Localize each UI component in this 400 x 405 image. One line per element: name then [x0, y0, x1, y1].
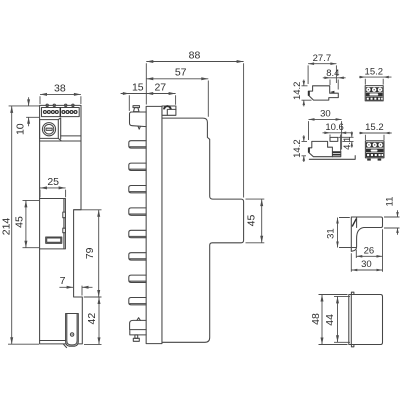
svg-text:88: 88	[189, 49, 201, 61]
dim 30	[309, 109, 342, 150]
window notches	[63, 212, 66, 233]
svg-text:27: 27	[154, 81, 166, 93]
connector side view 1	[308, 86, 339, 100]
top cap	[162, 106, 176, 115]
svg-text:14.2: 14.2	[292, 82, 303, 101]
gland box	[40, 118, 62, 141]
bottom terminal screw	[133, 335, 139, 341]
dim 15	[121, 81, 176, 111]
svg-text:57: 57	[175, 67, 187, 79]
dim 10.6	[323, 122, 353, 151]
front body outline	[40, 105, 83, 344]
dim 14.2 row1	[292, 80, 311, 107]
dim 45 side	[246, 199, 265, 243]
svg-text:25: 25	[47, 176, 59, 188]
dim 45 front	[14, 200, 39, 247]
dim 88	[146, 49, 243, 197]
svg-text:31: 31	[325, 228, 336, 239]
dim 4.1	[339, 132, 354, 150]
svg-text:8.4: 8.4	[326, 68, 339, 79]
top test tabs	[46, 104, 74, 106]
dim 30 bracket	[351, 253, 382, 272]
svg-text:30: 30	[361, 259, 372, 270]
dim 79	[74, 210, 102, 297]
svg-text:14.2: 14.2	[292, 139, 303, 158]
svg-text:15: 15	[132, 81, 144, 93]
dim 11	[384, 197, 400, 235]
top section lines	[40, 136, 81, 141]
svg-text:45: 45	[246, 215, 258, 227]
svg-text:26: 26	[364, 246, 375, 257]
side body outline	[162, 118, 244, 342]
svg-text:30: 30	[320, 109, 331, 120]
dim 15.2 row1	[359, 66, 392, 84]
svg-text:48: 48	[310, 313, 322, 325]
dim 27	[146, 81, 175, 95]
box outline	[349, 292, 383, 347]
svg-text:11: 11	[384, 197, 395, 207]
dim 10	[9, 97, 39, 135]
dim 14.2 row2	[292, 135, 307, 162]
SIDE VIEW	[129, 106, 244, 344]
gland screw	[42, 123, 55, 136]
connector face 2	[365, 141, 384, 161]
connector side view 2	[308, 137, 355, 159]
dim 8.4	[323, 68, 346, 90]
dim 57	[146, 67, 208, 117]
svg-text:214: 214	[0, 218, 12, 236]
dim 31	[325, 218, 356, 248]
svg-text:15.2: 15.2	[365, 66, 384, 77]
dim 7	[59, 275, 92, 296]
fins	[129, 141, 146, 305]
DIMENSIONS MIDDLE	[121, 49, 265, 242]
dim 25	[40, 176, 66, 197]
terminal row	[42, 108, 80, 117]
svg-text:10: 10	[14, 123, 26, 135]
DIMENSIONS LEFT	[0, 82, 101, 344]
mounting slab	[146, 106, 162, 343]
label window	[46, 237, 62, 243]
window	[40, 199, 66, 249]
svg-text:7: 7	[60, 275, 66, 287]
DETAIL ROW 1	[292, 53, 391, 107]
svg-text:38: 38	[54, 82, 66, 94]
svg-text:42: 42	[86, 313, 98, 325]
dim 26	[356, 229, 382, 272]
svg-text:4.1: 4.1	[342, 137, 353, 150]
dim 15.2 row2	[359, 122, 392, 140]
dim 44	[324, 296, 350, 342]
bottom terminal block	[130, 318, 147, 335]
DETAIL ROW 2	[292, 109, 392, 162]
dim 214	[0, 106, 39, 344]
dim 38	[40, 82, 81, 104]
svg-text:79: 79	[84, 247, 96, 259]
dim 48	[310, 295, 348, 345]
BRACKET VIEW	[325, 197, 399, 272]
svg-text:44: 44	[324, 314, 336, 326]
top terminal block	[130, 112, 147, 129]
din clip	[63, 314, 78, 348]
top terminal screw	[133, 106, 140, 112]
BOX VIEW	[310, 292, 383, 347]
connector face 1	[365, 86, 383, 101]
FRONT VIEW	[40, 104, 83, 347]
svg-text:27.7: 27.7	[313, 53, 332, 64]
dim 42	[84, 297, 102, 344]
svg-text:15.2: 15.2	[365, 122, 384, 133]
terminal screws	[43, 110, 78, 114]
svg-text:10.6: 10.6	[325, 122, 344, 133]
svg-text:45: 45	[14, 216, 26, 228]
bracket outline	[351, 217, 382, 251]
dim 27.7	[308, 53, 336, 84]
